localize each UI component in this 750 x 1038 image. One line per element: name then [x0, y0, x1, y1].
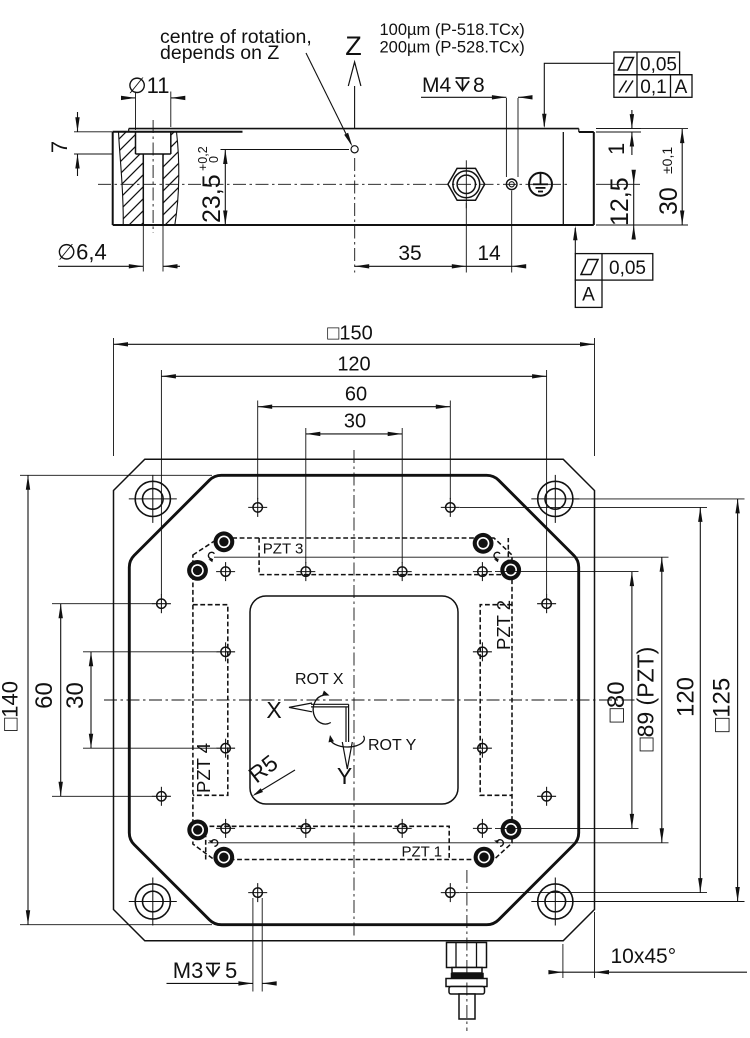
svg-text:8: 8	[473, 74, 485, 97]
svg-text:120: 120	[673, 677, 700, 717]
svg-text:0,05: 0,05	[640, 55, 677, 76]
svg-text:M3: M3	[173, 958, 204, 983]
svg-text:∅11: ∅11	[127, 73, 169, 98]
svg-text:PZT 1: PZT 1	[402, 844, 443, 861]
svg-text:0,05: 0,05	[609, 258, 646, 279]
svg-text:200µm (P-528.TCx): 200µm (P-528.TCx)	[380, 39, 525, 57]
svg-text:PZT 3: PZT 3	[263, 541, 304, 558]
svg-text:100µm (P-518.TCx): 100µm (P-518.TCx)	[380, 21, 525, 39]
svg-text:Z: Z	[345, 31, 362, 61]
svg-text:Y: Y	[337, 763, 352, 789]
svg-text:30: 30	[655, 187, 683, 215]
svg-text:120: 120	[337, 353, 370, 375]
svg-text:X: X	[266, 697, 281, 723]
svg-text:30: 30	[344, 411, 366, 433]
svg-text:PZT 2: PZT 2	[493, 600, 514, 650]
svg-text:□89 (PZT): □89 (PZT)	[633, 647, 659, 752]
svg-text:ROT X: ROT X	[295, 671, 344, 688]
svg-text:5: 5	[225, 958, 237, 983]
svg-text:ROT Y: ROT Y	[368, 737, 417, 754]
svg-text:30: 30	[62, 682, 89, 709]
svg-text:23,5: 23,5	[198, 174, 226, 223]
svg-text:A: A	[582, 285, 595, 306]
svg-text:PZT 4: PZT 4	[193, 743, 214, 793]
svg-text:7: 7	[47, 141, 72, 153]
svg-text:±0,1: ±0,1	[659, 147, 675, 174]
svg-text:depends on Z: depends on Z	[160, 42, 279, 64]
svg-text:0: 0	[207, 156, 221, 163]
svg-text:10x45°: 10x45°	[611, 945, 677, 968]
svg-text:60: 60	[345, 384, 367, 406]
svg-text:35: 35	[398, 242, 421, 265]
svg-text:14: 14	[477, 242, 501, 265]
svg-text:M4: M4	[422, 74, 451, 97]
svg-text:12,5: 12,5	[606, 177, 634, 226]
svg-text:□150: □150	[327, 323, 372, 345]
svg-text:0,1: 0,1	[640, 77, 666, 98]
svg-text:□80: □80	[603, 681, 630, 722]
svg-text:□125: □125	[709, 678, 736, 733]
svg-text:□140: □140	[0, 681, 23, 731]
svg-text:60: 60	[31, 682, 58, 709]
svg-text:1: 1	[604, 143, 629, 155]
svg-text:A: A	[675, 77, 688, 98]
svg-text:∅6,4: ∅6,4	[57, 240, 107, 265]
